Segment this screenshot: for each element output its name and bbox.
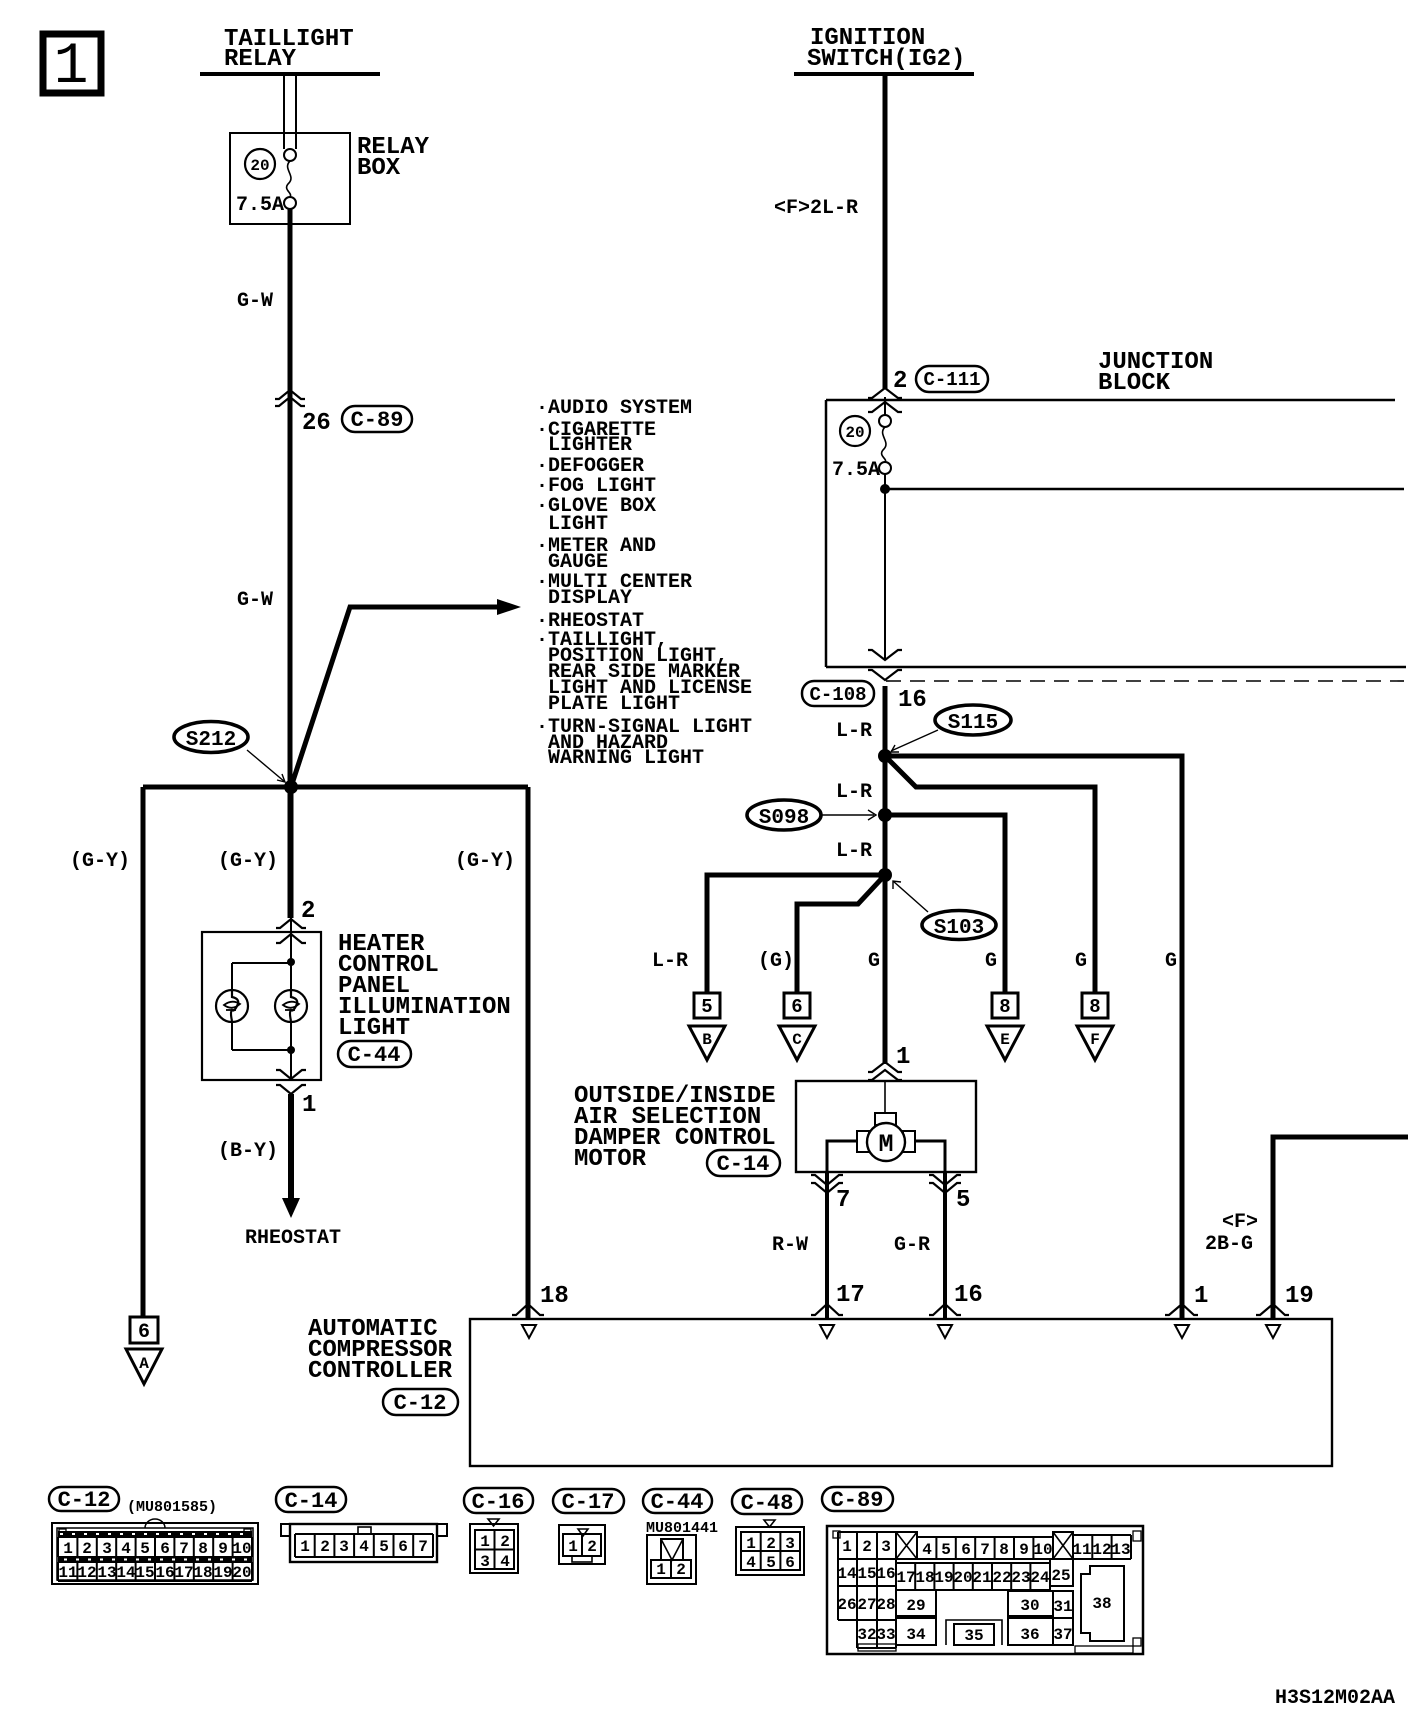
svg-text:SWITCH(IG2): SWITCH(IG2) (807, 46, 965, 73)
wire branch S098 to terminal E (885, 815, 1005, 993)
svg-text:15: 15 (135, 1564, 154, 1582)
connector C-89 pinout shell (827, 1526, 1143, 1654)
ignition switch bus bar (794, 72, 974, 76)
label AUTOMATIC COMPRESSOR CONTROLLER (308, 1316, 453, 1385)
wire R-W from motor pin 7 (811, 1172, 843, 1318)
svg-text:7: 7 (836, 1187, 850, 1214)
page number box 1 (43, 34, 101, 100)
chevron inside junction block top (868, 402, 902, 412)
connector pass chevrons at C-89 (275, 390, 305, 406)
svg-text:<F>2L-R: <F>2L-R (774, 197, 858, 220)
svg-text:14: 14 (837, 1565, 857, 1583)
svg-text:18: 18 (540, 1283, 569, 1310)
svg-text:B: B (702, 1031, 712, 1049)
wire G-Y horizontal bus at S212 (143, 785, 528, 790)
svg-text:<F>: <F> (1222, 1211, 1258, 1234)
svg-text:31: 31 (1053, 1598, 1072, 1616)
svg-text:17: 17 (896, 1569, 915, 1587)
svg-text:H3S12M02AA: H3S12M02AA (1275, 1687, 1395, 1710)
svg-text:36: 36 (1020, 1626, 1039, 1644)
svg-text:C-14: C-14 (285, 1489, 338, 1514)
damper control motor box (796, 1081, 976, 1172)
svg-text:1: 1 (302, 1092, 316, 1119)
label RELAY BOX (357, 134, 430, 182)
triangle terminal B (689, 1026, 725, 1060)
svg-text:LIGHTER: LIGHTER (548, 434, 632, 457)
connector C-14 pinout (281, 1524, 447, 1562)
connector C-89 pin 36 (1008, 1618, 1053, 1645)
svg-text:1: 1 (1194, 1283, 1208, 1310)
splice S103 label (922, 911, 996, 941)
connector label C-17 bottom (553, 1489, 624, 1515)
label JUNCTION BLOCK (1098, 349, 1213, 397)
wire G-Y middle branch down (289, 787, 294, 918)
svg-text:4: 4 (500, 1553, 510, 1571)
svg-text:7: 7 (179, 1540, 189, 1558)
svg-text:24: 24 (1030, 1569, 1050, 1587)
svg-text:·AUDIO SYSTEM: ·AUDIO SYSTEM (536, 397, 692, 420)
controller input triangle pin 16 (938, 1325, 952, 1338)
svg-text:5: 5 (701, 996, 712, 1018)
fuse 20 circle label (245, 149, 275, 179)
svg-text:18: 18 (193, 1564, 212, 1582)
svg-text:19: 19 (213, 1564, 232, 1582)
node S115 junction dot (878, 749, 892, 763)
junction block internal feed dot (880, 484, 890, 494)
connector C-89 pin 29 (896, 1590, 936, 1616)
svg-text:(G): (G) (758, 950, 794, 973)
connector label C-12 bottom (49, 1487, 119, 1513)
svg-text:2: 2 (301, 898, 315, 925)
chevron out of heater connector pin 1 (276, 1050, 306, 1094)
svg-text:8: 8 (1089, 996, 1100, 1018)
svg-text:C-89: C-89 (831, 1488, 884, 1513)
wire 2L-R from ignition switch (883, 76, 888, 389)
svg-text:C-14: C-14 (717, 1152, 770, 1177)
svg-text:7.5A: 7.5A (832, 459, 880, 482)
connector label C-14 bottom (276, 1487, 346, 1514)
svg-text:22: 22 (992, 1569, 1011, 1587)
heater control panel illumination light box (202, 932, 321, 1080)
svg-text:5: 5 (140, 1540, 150, 1558)
svg-text:C-48: C-48 (741, 1491, 794, 1516)
svg-text:8: 8 (999, 996, 1010, 1018)
svg-text:4: 4 (359, 1538, 369, 1556)
svg-text:9: 9 (1019, 1541, 1029, 1559)
svg-text:(G-Y): (G-Y) (218, 850, 278, 873)
svg-text:19: 19 (934, 1569, 953, 1587)
svg-text:12: 12 (77, 1564, 96, 1582)
svg-text:6: 6 (785, 1554, 795, 1572)
connector label C-44 (338, 1041, 411, 1068)
wire L-R main down from junction block (883, 686, 888, 878)
wire G-Y right branch down to pin 18 (526, 787, 531, 1318)
svg-text:3: 3 (339, 1538, 349, 1556)
wire 2B-G from right edge (1256, 1137, 1408, 1318)
leader arrow from S103 to junction (893, 881, 928, 912)
splice S115 label (935, 705, 1011, 735)
svg-text:L-R: L-R (836, 720, 872, 743)
svg-text:30: 30 (1020, 1597, 1039, 1615)
svg-text:9: 9 (218, 1540, 228, 1558)
svg-text:2: 2 (320, 1538, 330, 1556)
svg-text:S212: S212 (186, 729, 236, 752)
svg-text:LIGHT: LIGHT (338, 1015, 410, 1042)
connector label C-89 (342, 406, 412, 433)
chevron into junction block C-111 (868, 388, 902, 398)
leader arrow from S098 to junction (822, 810, 876, 820)
junction block internal bus line (885, 488, 1404, 491)
relay box outline (230, 133, 350, 224)
svg-text:25: 25 (1051, 1567, 1070, 1585)
svg-text:16: 16 (898, 687, 927, 714)
svg-text:C: C (792, 1031, 802, 1049)
terminal box 8 E (992, 993, 1018, 1018)
svg-text:3: 3 (102, 1540, 112, 1558)
svg-text:2: 2 (893, 368, 907, 395)
svg-text:2: 2 (676, 1561, 686, 1579)
controller input triangle pin 19 (1266, 1325, 1280, 1338)
svg-text:G: G (1165, 950, 1177, 973)
connector C-89 pin 30 (1008, 1591, 1053, 1616)
node S103 junction dot (878, 868, 892, 882)
svg-text:12: 12 (1092, 1541, 1111, 1559)
label TAILLIGHT RELAY (224, 26, 354, 73)
svg-text:21: 21 (972, 1569, 991, 1587)
wire label (F)2B-G (1205, 1211, 1258, 1256)
svg-text:6: 6 (961, 1541, 971, 1559)
svg-text:32: 32 (857, 1626, 876, 1644)
connector label C-16 bottom (464, 1488, 533, 1515)
svg-text:4: 4 (121, 1540, 131, 1558)
triangle terminal A (126, 1349, 162, 1384)
svg-text:13: 13 (1111, 1541, 1130, 1559)
svg-text:G-R: G-R (894, 1234, 930, 1257)
svg-text:6: 6 (398, 1538, 408, 1556)
wire G-Y left branch down (141, 787, 146, 1317)
illumination lamp left (216, 990, 248, 1022)
chevron G wire into controller pin 1 (1165, 1304, 1198, 1315)
svg-text:1: 1 (656, 1561, 666, 1579)
svg-text:3: 3 (881, 1538, 891, 1556)
connector C-89 pin 31 (1053, 1591, 1073, 1618)
svg-text:C-17: C-17 (562, 1490, 615, 1515)
svg-text:C-44: C-44 (348, 1043, 401, 1068)
splice S212 label (174, 722, 248, 753)
svg-text:M: M (878, 1130, 893, 1159)
svg-text:1: 1 (63, 1540, 73, 1558)
controller input triangle pin 17 (820, 1325, 834, 1338)
svg-text:13: 13 (97, 1564, 116, 1582)
svg-text:1: 1 (746, 1535, 756, 1553)
connector C-12 pin cells row 1 (58, 1537, 252, 1558)
wire arrow branch to item list (291, 599, 521, 787)
svg-text:17: 17 (174, 1564, 193, 1582)
wire branch S115 to terminal F (885, 756, 1095, 993)
svg-text:8: 8 (999, 1541, 1009, 1559)
terminal 6 box bottom left (130, 1317, 158, 1344)
svg-text:C-111: C-111 (923, 369, 980, 391)
fuse element in junction block (879, 397, 891, 489)
controller input triangle pin 18 (522, 1325, 536, 1338)
relay terminal blade wire (284, 76, 296, 149)
motor M symbol (857, 1113, 915, 1161)
svg-text:6: 6 (138, 1321, 150, 1344)
svg-text:4: 4 (922, 1541, 932, 1559)
svg-text:26: 26 (302, 410, 331, 437)
lamp wiring inside heater box (232, 958, 295, 1054)
svg-text:7.5A: 7.5A (236, 194, 284, 217)
label HEATER CONTROL PANEL ILLUMINATION LIGHT (338, 931, 511, 1042)
svg-text:L-R: L-R (836, 840, 872, 863)
svg-text:2: 2 (766, 1535, 776, 1553)
connector label C-12 (383, 1389, 458, 1416)
wire branch S103 to terminal C (797, 875, 885, 993)
controller input triangle pin 1 (1175, 1325, 1189, 1338)
svg-text:MOTOR: MOTOR (574, 1146, 647, 1173)
svg-text:11: 11 (58, 1564, 77, 1582)
svg-text:6: 6 (791, 996, 802, 1018)
connector C-16 pinout (470, 1519, 518, 1573)
svg-text:L-R: L-R (836, 781, 872, 804)
svg-text:15: 15 (857, 1565, 876, 1583)
svg-text:28: 28 (876, 1596, 895, 1614)
svg-text:27: 27 (857, 1596, 876, 1614)
dashed harness line below junction block (886, 680, 1404, 682)
svg-text:G: G (1075, 950, 1087, 973)
svg-text:2: 2 (587, 1538, 597, 1556)
svg-text:5: 5 (379, 1538, 389, 1556)
motor lead wires inside box (827, 1141, 945, 1172)
leader arrow from S115 to junction (891, 730, 938, 752)
svg-text:(B-Y): (B-Y) (218, 1140, 278, 1163)
svg-text:16: 16 (876, 1565, 895, 1583)
svg-text:23: 23 (1011, 1569, 1030, 1587)
triangle terminal E (987, 1026, 1023, 1060)
fuse 20 circle label in junction block (840, 416, 870, 446)
connector label C-14 (707, 1150, 780, 1177)
svg-text:E: E (1000, 1031, 1010, 1049)
connector C-48 pinout (736, 1520, 804, 1575)
connector C-89 pin 37 (1053, 1618, 1073, 1645)
svg-text:C-12: C-12 (58, 1488, 111, 1513)
svg-text:S098: S098 (759, 807, 809, 830)
svg-text:20: 20 (953, 1569, 972, 1587)
chevron out of junction block C-108 (868, 670, 902, 680)
triangle terminal F (1077, 1026, 1113, 1060)
svg-text:BOX: BOX (357, 155, 401, 182)
svg-text:7: 7 (418, 1538, 428, 1556)
connector C-17 pinout (559, 1525, 605, 1564)
svg-text:RELAY: RELAY (224, 46, 297, 73)
svg-text:(G-Y): (G-Y) (455, 850, 515, 873)
connector C-89 keyway X right (1053, 1532, 1073, 1559)
junction block outline (826, 400, 1406, 667)
wire G down to damper motor (868, 875, 902, 1114)
svg-text:LIGHT: LIGHT (548, 513, 608, 536)
svg-text:37: 37 (1053, 1626, 1072, 1644)
svg-text:29: 29 (906, 1597, 925, 1615)
connector label C-48 bottom (732, 1489, 802, 1516)
svg-text:F: F (1090, 1031, 1100, 1049)
load list fed by taillight relay (536, 397, 752, 770)
node S098 junction dot (878, 808, 892, 822)
svg-text:5: 5 (941, 1541, 951, 1559)
svg-text:G: G (868, 950, 880, 973)
fuse element in relay box (284, 149, 296, 209)
svg-text:L-R: L-R (652, 950, 688, 973)
svg-text:1: 1 (842, 1538, 852, 1556)
svg-text:C-44: C-44 (651, 1490, 704, 1515)
connector label C-44 bottom (643, 1489, 712, 1515)
svg-text:16: 16 (155, 1564, 174, 1582)
connector C-89 pin 34 (896, 1618, 936, 1645)
svg-text:34: 34 (906, 1626, 926, 1644)
connector C-89 pins 4-10 (917, 1537, 1053, 1559)
svg-text:1: 1 (54, 35, 89, 100)
junction block internal wire down (868, 489, 902, 660)
connector label C-108 (802, 681, 874, 706)
chevron pin 18 into controller (512, 1304, 544, 1315)
connector C-89 pin 25 (1050, 1559, 1073, 1586)
svg-text:PLATE LIGHT: PLATE LIGHT (548, 693, 680, 716)
wire G-W from relay box down (288, 209, 293, 918)
svg-text:CONTROLLER: CONTROLLER (308, 1358, 453, 1385)
connector C-89 pin 35 (946, 1620, 1002, 1645)
svg-text:1: 1 (300, 1538, 310, 1556)
terminal box 6 (784, 993, 810, 1018)
svg-text:C-108: C-108 (809, 684, 866, 706)
svg-text:17: 17 (836, 1282, 865, 1309)
terminal box 8 F (1082, 993, 1108, 1018)
svg-text:G-W: G-W (237, 290, 273, 313)
svg-text:G: G (985, 950, 997, 973)
wire G-R from motor pin 5 (929, 1172, 961, 1318)
svg-text:C-12: C-12 (394, 1391, 447, 1416)
svg-text:C-16: C-16 (472, 1490, 525, 1515)
svg-text:16: 16 (954, 1282, 983, 1309)
node S212 junction dot (284, 780, 298, 794)
svg-text:2B-G: 2B-G (1205, 1233, 1253, 1256)
leader arrow from S212 to junction (247, 750, 285, 782)
label IGNITION SWITCH(IG2) (807, 25, 965, 73)
triangle terminal C (779, 1026, 815, 1060)
wire branch S103 to terminal B (707, 875, 885, 993)
svg-text:2: 2 (862, 1538, 872, 1556)
svg-text:35: 35 (964, 1627, 983, 1645)
label OUTSIDE/INSIDE AIR SELECTION DAMPER CONTROL MOTOR (574, 1083, 776, 1173)
chevron into heater connector pin 2 (276, 918, 306, 962)
svg-text:18: 18 (915, 1569, 934, 1587)
svg-text:11: 11 (1072, 1541, 1091, 1559)
svg-text:26: 26 (837, 1596, 856, 1614)
svg-text:C-89: C-89 (351, 408, 404, 433)
svg-text:5: 5 (766, 1554, 776, 1572)
svg-text:A: A (139, 1355, 149, 1373)
automatic compressor controller box (470, 1319, 1332, 1466)
svg-text:S115: S115 (948, 712, 998, 735)
svg-text:(G-Y): (G-Y) (70, 850, 130, 873)
illumination lamp right (275, 990, 307, 1022)
svg-text:3: 3 (785, 1535, 795, 1553)
svg-text:1: 1 (480, 1533, 490, 1551)
svg-text:10: 10 (232, 1540, 251, 1558)
svg-text:(MU801585): (MU801585) (127, 1499, 217, 1516)
svg-text:WARNING LIGHT: WARNING LIGHT (548, 747, 704, 770)
wire branch S115 to controller pin 1 (885, 756, 1182, 1318)
svg-text:4: 4 (746, 1554, 756, 1572)
svg-text:5: 5 (956, 1187, 970, 1214)
svg-text:38: 38 (1092, 1595, 1111, 1613)
svg-text:33: 33 (876, 1626, 895, 1644)
connector C-44 pinout (647, 1535, 696, 1584)
splice S098 label (747, 800, 821, 830)
svg-text:G-W: G-W (237, 589, 273, 612)
svg-text:8: 8 (198, 1540, 208, 1558)
svg-text:1: 1 (568, 1538, 578, 1556)
svg-text:20: 20 (250, 157, 269, 175)
wire B-Y arrow to rheostat (282, 1094, 300, 1218)
svg-text:DISPLAY: DISPLAY (548, 587, 632, 610)
terminal box 5 (694, 993, 720, 1018)
taillight relay bus bar (200, 72, 380, 76)
svg-text:2: 2 (500, 1533, 510, 1551)
svg-text:14: 14 (116, 1564, 136, 1582)
connector C-89 keyway X left (896, 1532, 917, 1559)
svg-text:20: 20 (232, 1564, 251, 1582)
svg-text:S103: S103 (934, 917, 984, 940)
connector C-12 pin cells row 2 (58, 1562, 252, 1582)
svg-text:R-W: R-W (772, 1234, 808, 1257)
connector label C-89 bottom (822, 1487, 893, 1513)
svg-text:6: 6 (160, 1540, 170, 1558)
svg-text:RHEOSTAT: RHEOSTAT (245, 1227, 341, 1250)
svg-text:1: 1 (896, 1044, 910, 1071)
svg-text:3: 3 (480, 1553, 490, 1571)
svg-text:BLOCK: BLOCK (1098, 370, 1171, 397)
connector C-89 pins 17-24 (896, 1563, 1050, 1590)
svg-text:2: 2 (82, 1540, 92, 1558)
svg-text:20: 20 (845, 424, 864, 442)
connector C-89 pin 38 (1081, 1566, 1124, 1641)
svg-text:10: 10 (1033, 1541, 1052, 1559)
svg-text:19: 19 (1285, 1283, 1314, 1310)
connector C-89 pins 1-3 14-16 26-28 32-33 block (837, 1532, 896, 1648)
connector label C-111 (916, 366, 988, 392)
connector C-12 pinout (52, 1519, 258, 1584)
svg-text:7: 7 (980, 1541, 990, 1559)
connector C-89 pins 11-13 (1072, 1535, 1131, 1559)
